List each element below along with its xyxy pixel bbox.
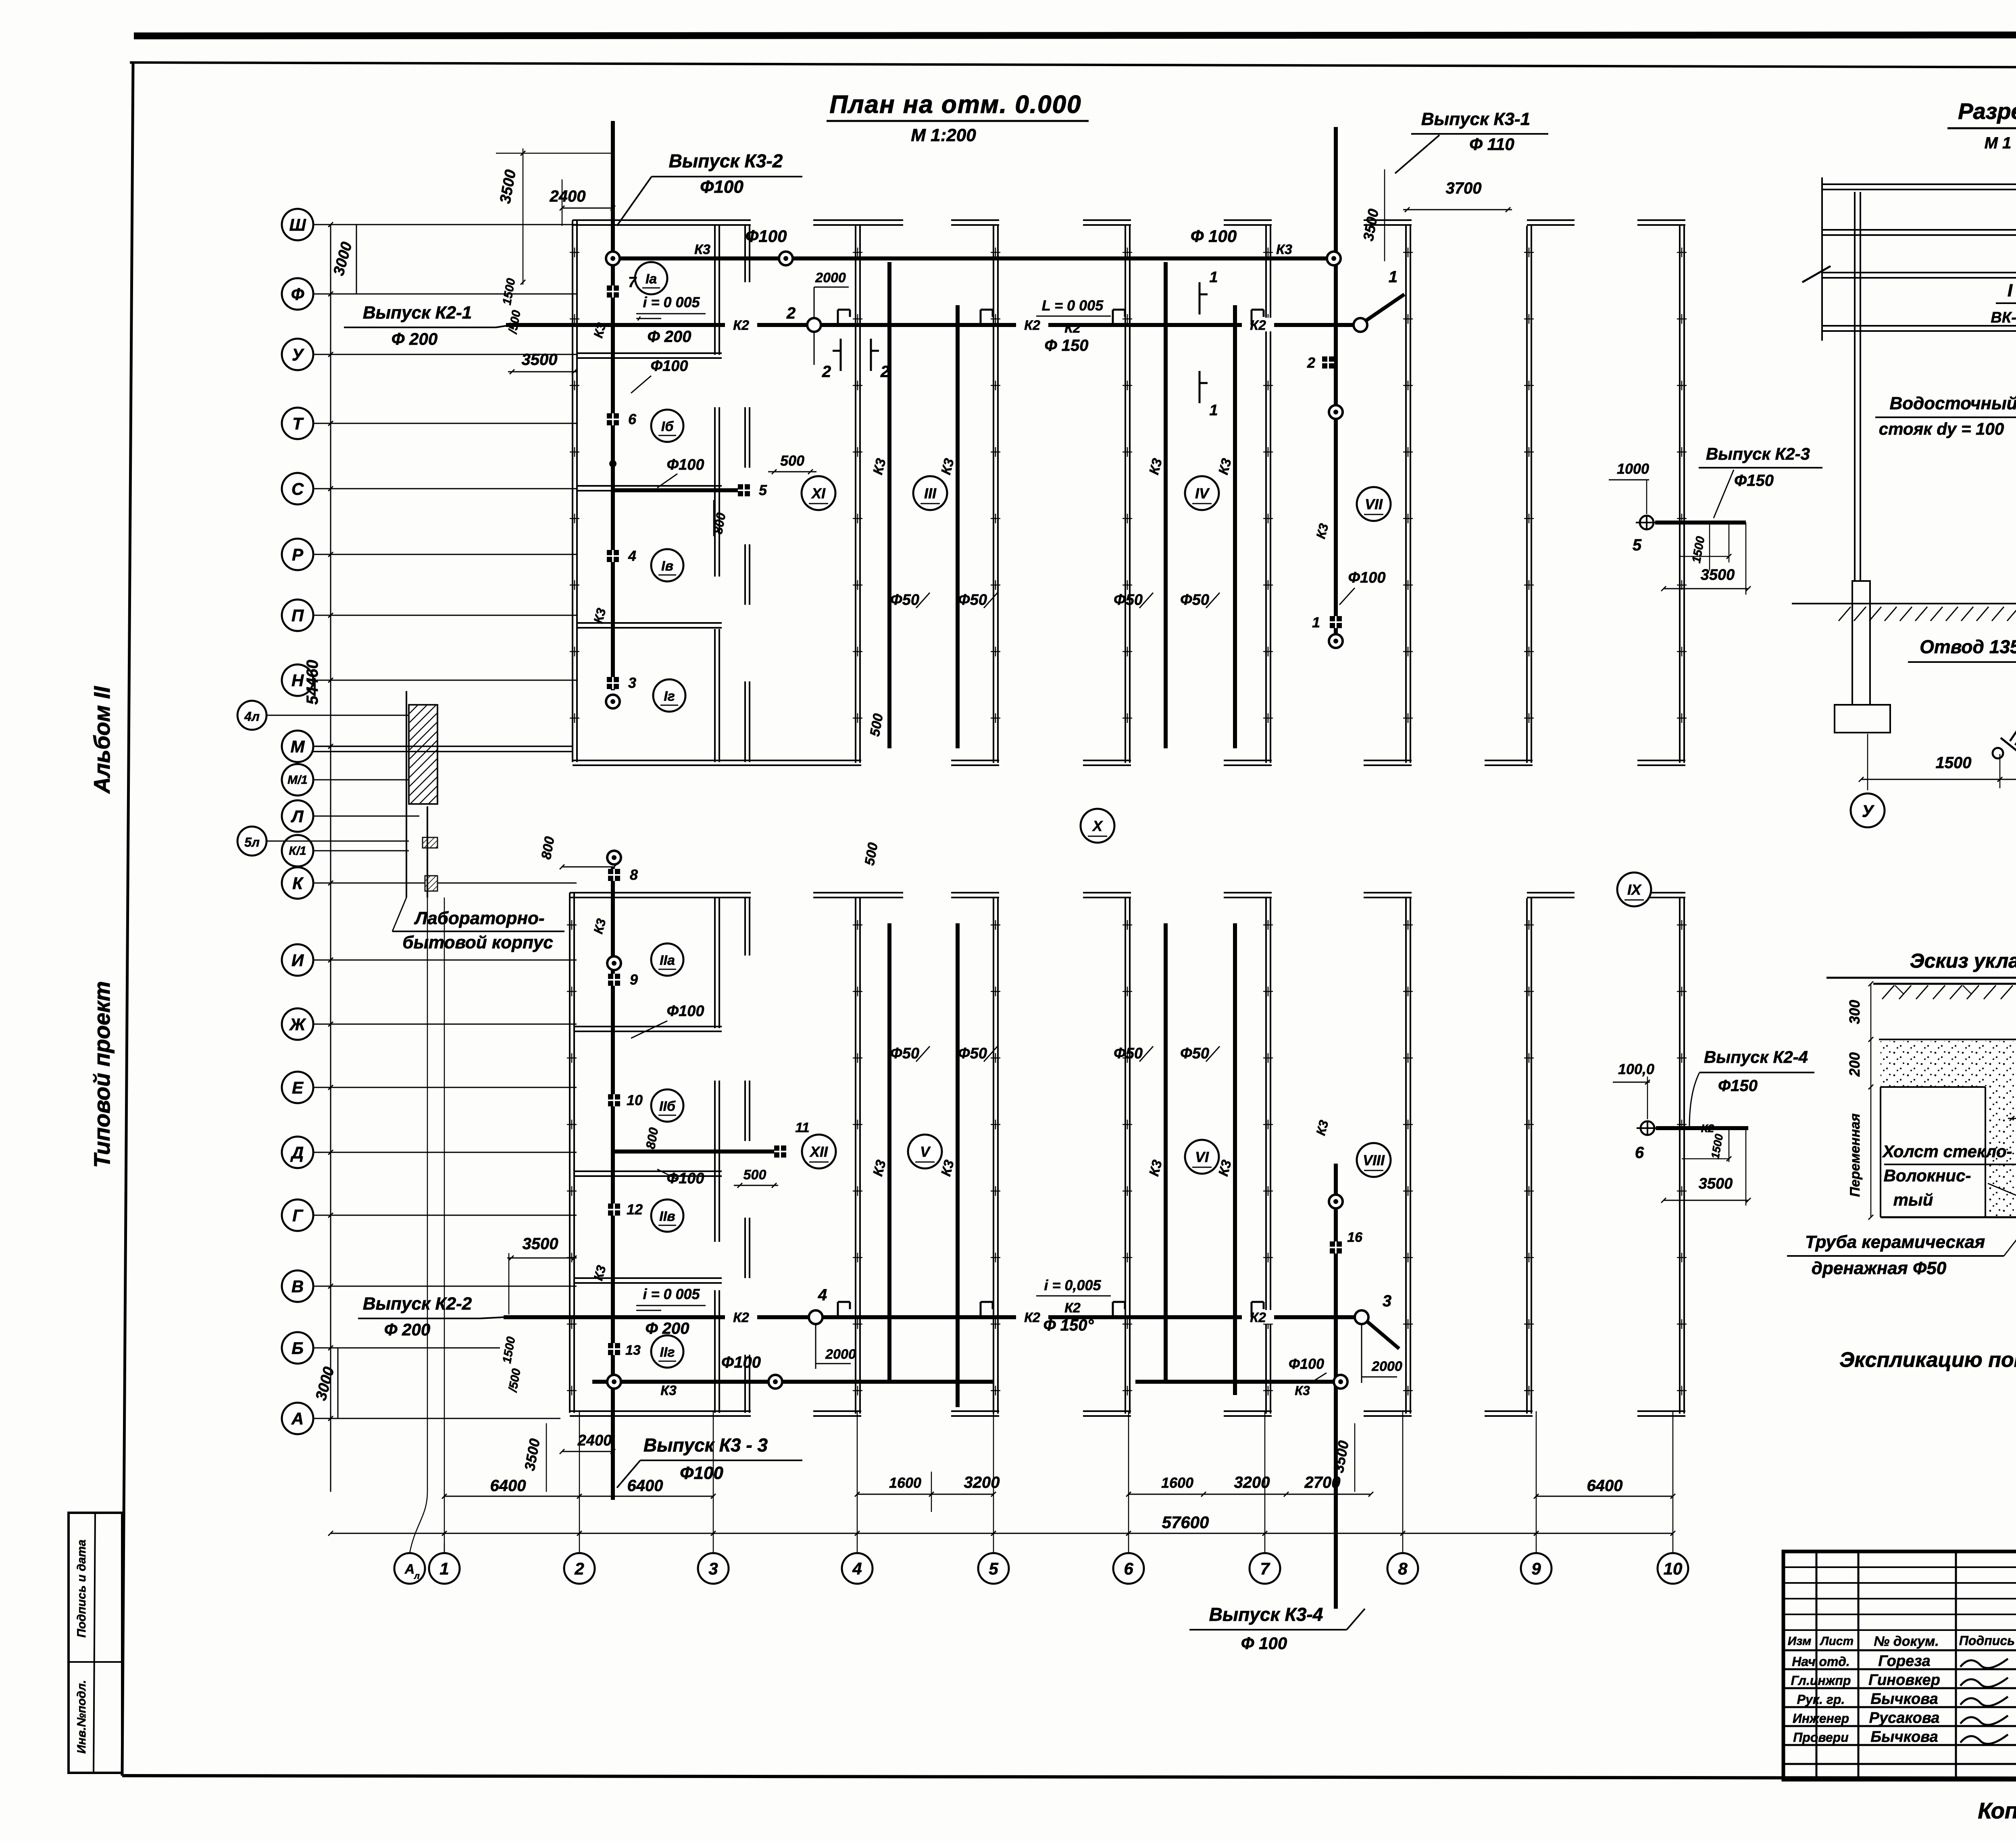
- svg-text:5: 5: [1633, 536, 1642, 554]
- dim 2000 at manhole 2: [814, 333, 815, 365]
- bottom band drain K3 a: [887, 923, 891, 1382]
- axis circle 4Л: [237, 701, 267, 730]
- block II partition horizontals: [574, 1026, 722, 1027]
- dimension 6400 right: [1536, 1496, 1673, 1497]
- room circle Iв: [651, 549, 683, 581]
- svg-text:№ докум.: № докум.: [1874, 1634, 1939, 1649]
- riser K3-1 drain inside: [1334, 220, 1338, 645]
- eskiz trench left: [1987, 1086, 2016, 1216]
- K2 manhole 2: [807, 318, 821, 332]
- riser K3-4 vertical bottom: [1334, 1164, 1338, 1609]
- bottom band drain K3 d: [1233, 923, 1237, 1395]
- svg-text:6400: 6400: [1587, 1477, 1623, 1495]
- dim 2000 at manhole 4: [815, 1325, 816, 1369]
- svg-text:Выпуск К3 - 3: Выпуск К3 - 3: [644, 1435, 768, 1456]
- eskiz ground hatch: [1882, 985, 1894, 999]
- junction dot: [609, 460, 616, 467]
- svg-text:4: 4: [818, 1286, 827, 1304]
- svg-text:Н: Н: [292, 671, 304, 690]
- svg-text:Д: Д: [290, 1143, 304, 1162]
- manhole 9 square: [608, 974, 620, 986]
- eskiz dims left margin: [1870, 984, 1872, 1217]
- svg-text:13: 13: [625, 1343, 641, 1358]
- svg-text:3: 3: [1383, 1292, 1391, 1310]
- column circle 1: [429, 1553, 460, 1584]
- svg-text:1: 1: [1209, 269, 1218, 286]
- bottom band wall at column 8: [1405, 898, 1407, 1414]
- svg-text:Ф 100: Ф 100: [1191, 227, 1237, 246]
- K2 wall bracket jogs top band: [837, 310, 839, 325]
- axis circle М/1: [282, 764, 313, 795]
- svg-text:Ф50: Ф50: [1180, 591, 1209, 608]
- eskiz left box: [1880, 1087, 1881, 1217]
- axis circle А: [282, 1403, 313, 1434]
- column circle 2: [564, 1553, 595, 1584]
- svg-text:Р: Р: [292, 545, 304, 564]
- svg-text:К: К: [292, 874, 304, 893]
- svg-text:8: 8: [1398, 1559, 1408, 1578]
- svg-text:Лист: Лист: [1820, 1635, 1854, 1648]
- section mark 2-2 left: [840, 339, 842, 371]
- K2 wall bracket jogs bottom band: [837, 1302, 839, 1317]
- block II spur pipe with manhole 11: [614, 1149, 778, 1154]
- axis circle С: [282, 473, 313, 504]
- razrez 1-1 break marks: [1802, 266, 1831, 282]
- svg-text:VIII: VIII: [1363, 1152, 1385, 1168]
- axis line К: [313, 883, 577, 884]
- svg-text:К/1: К/1: [289, 844, 306, 858]
- svg-text:3200: 3200: [1234, 1474, 1270, 1491]
- svg-text:М: М: [291, 737, 305, 756]
- axis circle К/1: [282, 835, 313, 866]
- svg-text:2400: 2400: [577, 1432, 612, 1449]
- svg-text:К3: К3: [1276, 242, 1292, 257]
- manhole 9 circle: [607, 956, 621, 970]
- svg-text:Рук. гр.: Рук. гр.: [1797, 1692, 1845, 1707]
- svg-text:Ф150: Ф150: [1734, 472, 1774, 489]
- bottom band wall at column 7: [1265, 898, 1267, 1414]
- svg-text:6: 6: [1124, 1559, 1133, 1578]
- eskiz ground line: [1873, 983, 2016, 985]
- axis circle И: [282, 944, 313, 976]
- manhole 1 square: [1330, 616, 1342, 628]
- K3 main top: [613, 256, 1334, 260]
- svg-text:Подпись: Подпись: [1959, 1633, 2015, 1648]
- razrez 1-1 left column: [1854, 192, 1856, 581]
- K2 manhole 1: [1354, 318, 1367, 332]
- svg-text:Iв: Iв: [661, 558, 673, 574]
- svg-text:У: У: [1862, 802, 1875, 820]
- manhole circle a: [1329, 405, 1343, 419]
- svg-text:IV: IV: [1195, 485, 1210, 502]
- axis circle 5Л: [237, 827, 267, 856]
- top band drain K3 d: [1233, 305, 1237, 748]
- manhole 8 circle: [607, 851, 621, 864]
- svg-text:Ф 200: Ф 200: [392, 329, 438, 348]
- vertical dimension line along axis circles: [330, 225, 331, 1492]
- svg-text:1600: 1600: [1161, 1474, 1193, 1491]
- riser K3-2 vertical (block I): [611, 121, 615, 690]
- bay circle V: [908, 1135, 942, 1168]
- svg-text:i = 0,005: i = 0,005: [1044, 1277, 1101, 1293]
- svg-text:4л: 4л: [244, 709, 260, 724]
- svg-text:Iа: Iа: [646, 271, 657, 287]
- svg-text:План на отм. 0.000: План на отм. 0.000: [829, 91, 1081, 119]
- column circle 9: [1521, 1553, 1552, 1584]
- bottom-left margin table: [69, 1513, 122, 1773]
- svg-text:К3: К3: [660, 1383, 677, 1398]
- svg-text:6: 6: [628, 411, 637, 427]
- svg-text:Ф 110: Ф 110: [1469, 135, 1514, 154]
- axis line И: [313, 960, 577, 961]
- svg-text:Е: Е: [292, 1078, 304, 1097]
- svg-text:3500: 3500: [1699, 1175, 1733, 1192]
- corridor axis M double line: [313, 745, 573, 747]
- axis circle Ф: [282, 278, 313, 310]
- razrez 1-1 roof end rails: [1821, 177, 1823, 341]
- axis circle Д: [282, 1137, 313, 1168]
- svg-text:2400: 2400: [550, 187, 586, 205]
- vypusk K2-1 leader: [496, 325, 511, 327]
- axis line М: [313, 746, 409, 747]
- svg-text:Ф100: Ф100: [666, 1003, 704, 1020]
- razrez 1-1 left footing: [1835, 705, 1890, 733]
- top band drain K3 b: [956, 305, 960, 748]
- svg-text:Ф100: Ф100: [666, 1170, 704, 1187]
- svg-text:1500: 1500: [1936, 754, 1972, 772]
- svg-text:бытовой корпус: бытовой корпус: [402, 933, 553, 952]
- svg-text:стояк dу = 100: стояк dу = 100: [1879, 419, 2004, 438]
- svg-text:В: В: [292, 1277, 304, 1296]
- svg-text:I: I: [2008, 281, 2013, 300]
- svg-text:i = 0 005: i = 0 005: [643, 1286, 700, 1302]
- svg-text:Переменная: Переменная: [1847, 1113, 1863, 1197]
- svg-text:Б: Б: [292, 1339, 304, 1358]
- bay circle VIII: [1357, 1143, 1391, 1177]
- manhole circle b: [1329, 634, 1343, 648]
- svg-text:А: А: [404, 1562, 415, 1577]
- svg-text:12: 12: [627, 1201, 643, 1218]
- svg-text:IIв: IIв: [659, 1209, 675, 1224]
- svg-text:1: 1: [1209, 402, 1218, 419]
- svg-text:500: 500: [780, 452, 804, 469]
- axis line Ж: [313, 1024, 577, 1025]
- manhole 6: [607, 413, 619, 425]
- svg-text:9: 9: [1531, 1559, 1541, 1578]
- manhole 2 square top: [1322, 356, 1334, 369]
- svg-text:L = 0 005: L = 0 005: [1042, 297, 1104, 314]
- svg-text:Провери: Провери: [1793, 1730, 1849, 1745]
- svg-text:Волокнис-: Волокнис-: [1884, 1166, 1971, 1185]
- svg-text:К2: К2: [1701, 1122, 1714, 1135]
- axis circle У: [282, 339, 313, 370]
- axis line Ф: [313, 294, 577, 295]
- svg-text:Г: Г: [292, 1206, 304, 1225]
- K2 main top: [506, 323, 1360, 327]
- block I partition horizontals: [577, 352, 722, 354]
- axis line М/1: [313, 779, 409, 781]
- top band wall at column 10: [1679, 226, 1681, 763]
- svg-text:Труба керамическая: Труба керамическая: [1805, 1232, 1985, 1252]
- sheet top border line: [130, 62, 2016, 69]
- manhole 16 square: [1330, 1241, 1342, 1254]
- svg-text:Ш: Ш: [289, 215, 306, 234]
- svg-text:Выпуск К2-3: Выпуск К2-3: [1706, 444, 1810, 463]
- axis line У: [313, 354, 577, 355]
- razrez 1-1 roof beams: [1822, 183, 2016, 185]
- axis line Б: [313, 1347, 500, 1349]
- axis circle В: [282, 1270, 313, 1302]
- svg-text:Т: Т: [292, 414, 304, 433]
- svg-text:Л: Л: [291, 807, 304, 826]
- svg-text:2: 2: [1307, 354, 1315, 371]
- svg-text:Изм: Изм: [1788, 1635, 1812, 1648]
- section mark 1-1 top: [1199, 282, 1201, 314]
- column circle 3: [698, 1553, 729, 1584]
- axis line В: [313, 1286, 577, 1287]
- svg-text:2: 2: [574, 1559, 584, 1578]
- svg-text:Ф 150: Ф 150: [1044, 337, 1088, 354]
- svg-text:Типовой проект: Типовой проект: [89, 981, 115, 1168]
- svg-text:И: И: [292, 951, 304, 970]
- svg-text:3500: 3500: [1701, 566, 1735, 583]
- svg-text:7: 7: [1260, 1559, 1270, 1578]
- room circle Iг: [653, 679, 685, 712]
- column circle 8: [1387, 1553, 1418, 1584]
- block I outer walls: [572, 220, 573, 762]
- sheet left border: [122, 62, 133, 1776]
- svg-text:Выпуск К2-1: Выпуск К2-1: [363, 303, 472, 323]
- svg-text:XII: XII: [809, 1143, 828, 1160]
- manhole 13: [608, 1343, 620, 1355]
- svg-text:Выпуск К3-4: Выпуск К3-4: [1209, 1604, 1323, 1625]
- axis circle М: [282, 731, 313, 762]
- manhole 8 square: [608, 869, 620, 881]
- room circle IIв: [651, 1199, 683, 1232]
- column circle 7: [1250, 1553, 1280, 1584]
- svg-text:2: 2: [822, 363, 831, 381]
- axis line Г: [313, 1215, 577, 1216]
- bottom band wall at column 5: [993, 898, 994, 1414]
- svg-text:200: 200: [1846, 1052, 1863, 1077]
- axis circle Л: [282, 800, 313, 832]
- svg-text:2000: 2000: [1371, 1359, 1402, 1374]
- svg-text:Ф100: Ф100: [666, 456, 704, 473]
- bay circle III: [913, 476, 947, 510]
- manhole circle c: [1329, 1195, 1343, 1208]
- svg-text:11: 11: [795, 1120, 809, 1135]
- axis circle К: [282, 867, 313, 899]
- axis line Р: [313, 554, 577, 555]
- svg-text:57600: 57600: [1162, 1513, 1209, 1532]
- riser K3-3 vertical (block II): [611, 867, 615, 1500]
- title block outer box: [1783, 1551, 2016, 1780]
- svg-text:3200: 3200: [964, 1474, 1000, 1491]
- truba leader: [2004, 1214, 2016, 1256]
- axis circle Ш: [282, 209, 313, 240]
- dim 3500 rotated top left: [523, 148, 524, 285]
- svg-text:У: У: [292, 345, 305, 364]
- svg-text:6400: 6400: [627, 1477, 663, 1495]
- svg-text:Гиновкер: Гиновкер: [1868, 1672, 1940, 1689]
- svg-text:Ф50: Ф50: [1180, 1045, 1209, 1062]
- axis circle Р: [282, 539, 313, 570]
- svg-text:4: 4: [628, 548, 636, 564]
- svg-text:М 1 : 50: М 1 : 50: [1985, 134, 2016, 152]
- block I right wall stubs: [744, 226, 746, 282]
- svg-text:М 1:200: М 1:200: [911, 125, 976, 145]
- axis circle Г: [282, 1199, 313, 1231]
- top band drain K3 c: [1164, 262, 1168, 748]
- svg-text:К3: К3: [1295, 1383, 1310, 1398]
- svg-text:5л: 5л: [244, 835, 260, 850]
- svg-text:Бычкова: Бычкова: [1870, 1691, 1938, 1708]
- svg-text:VI: VI: [1195, 1149, 1209, 1165]
- svg-text:5: 5: [759, 482, 767, 498]
- svg-text:Экспликацию помещений см.: Экспликацию помещений см. лист ВК- 4: [1839, 1348, 2016, 1372]
- column circle 6: [1113, 1553, 1144, 1584]
- K2 labels bottom: [725, 1310, 757, 1324]
- top band wall at column 7: [1265, 226, 1267, 763]
- svg-text:IIа: IIа: [660, 953, 675, 968]
- svg-text:Гл.инжпр: Гл.инжпр: [1791, 1673, 1851, 1688]
- razrez 1-1 ground hatch: [1839, 607, 1851, 621]
- bottom band wall at column 4: [855, 898, 856, 1414]
- svg-text:Водосточный: Водосточный: [1889, 394, 2016, 413]
- vypusk K2-4 assembly: [1641, 1121, 1654, 1135]
- K2 manhole 1 tail: [1366, 294, 1404, 321]
- dim text 3000 top: [356, 225, 357, 294]
- bay circle IX: [1617, 873, 1651, 906]
- svg-text:Ф 100: Ф 100: [1241, 1634, 1287, 1653]
- svg-text:54460: 54460: [304, 660, 321, 704]
- svg-text:Ф100: Ф100: [650, 358, 688, 375]
- svg-text:100,0: 100,0: [1618, 1061, 1654, 1077]
- svg-text:Выпуск К3-2: Выпуск К3-2: [669, 150, 783, 171]
- svg-text:3: 3: [708, 1559, 718, 1578]
- block II partition vertical: [714, 898, 716, 1028]
- svg-text:Iг: Iг: [664, 689, 675, 704]
- svg-text:XI: XI: [811, 485, 826, 502]
- K3 main bottom a: [592, 1380, 993, 1384]
- svg-text:VII: VII: [1365, 496, 1383, 512]
- dim 3500 rotated bottom left: [546, 1423, 547, 1492]
- section mark 1-1 bottom: [1199, 371, 1201, 403]
- top band wall at column 5: [993, 226, 994, 763]
- block I partition vertical: [714, 226, 716, 355]
- sheet outer top thick line: [134, 35, 2016, 36]
- svg-text:Русакова: Русакова: [1869, 1710, 1940, 1726]
- svg-text:Ф100: Ф100: [700, 177, 744, 197]
- svg-text:А: А: [291, 1409, 304, 1428]
- axis line Д: [313, 1152, 577, 1153]
- bay circle X: [1081, 809, 1114, 843]
- svg-text:Эскиз укладки дренажных тр: Эскиз укладки дренажных труб в грунтовых…: [1910, 950, 2016, 972]
- svg-text:К3: К3: [694, 242, 710, 257]
- svg-text:1: 1: [1389, 268, 1397, 286]
- svg-text:IX: IX: [1627, 881, 1642, 898]
- bay circle XI: [802, 476, 835, 510]
- K3 main top manholes: [606, 252, 620, 265]
- manhole circle below 3: [606, 695, 620, 708]
- bottom band wall at column 10: [1679, 898, 1681, 1414]
- svg-text:3: 3: [628, 675, 636, 691]
- svg-text:Лабораторно-: Лабораторно-: [414, 908, 544, 928]
- svg-text:IIг: IIг: [660, 1345, 675, 1360]
- razrez 1-1 left pier: [1852, 581, 1870, 705]
- K2 manhole 3 tail: [1367, 1321, 1399, 1349]
- svg-text:3500: 3500: [523, 1235, 558, 1253]
- manhole circle K3 line bl: [607, 1375, 621, 1389]
- svg-text:К2: К2: [1024, 318, 1040, 333]
- svg-text:дренажная Ф50: дренажная Ф50: [1812, 1258, 1947, 1278]
- svg-text:Ф 150°: Ф 150°: [1043, 1316, 1094, 1334]
- block I spur pipe with manhole 5: [613, 488, 744, 492]
- svg-text:16: 16: [1347, 1230, 1363, 1245]
- svg-text:Выпуск К2-4: Выпуск К2-4: [1704, 1047, 1808, 1066]
- svg-text:8: 8: [630, 866, 638, 883]
- column circle 5: [978, 1553, 1009, 1584]
- svg-text:Бычкова: Бычкова: [1870, 1728, 1938, 1745]
- svg-text:М/1: М/1: [287, 773, 308, 787]
- axis circle Е: [282, 1072, 313, 1103]
- svg-text:л: л: [414, 1571, 420, 1581]
- manhole 12: [608, 1204, 620, 1216]
- bottom band drain K3 c: [1164, 923, 1168, 1382]
- svg-text:i = 0 005: i = 0 005: [643, 294, 700, 310]
- lab leader: [392, 898, 406, 931]
- axis line П: [313, 615, 577, 616]
- svg-text:1600: 1600: [889, 1474, 921, 1491]
- block II outer walls: [569, 893, 571, 1413]
- svg-text:Ф50: Ф50: [958, 591, 987, 608]
- title block left columns: [1816, 1551, 1818, 1780]
- top band wall at column 4: [855, 226, 856, 763]
- svg-text:2000: 2000: [815, 270, 846, 285]
- K2 manhole 3: [1355, 1310, 1368, 1324]
- vypusk K3-2 leader: [617, 177, 652, 226]
- block II right wall stubs: [744, 898, 746, 956]
- svg-text:1000: 1000: [1617, 460, 1649, 477]
- top band wall at column 8: [1405, 226, 1407, 763]
- vypusk K2-3 assembly: [1640, 516, 1654, 529]
- svg-text:К2: К2: [1024, 1310, 1040, 1325]
- axis line Ш: [313, 224, 577, 225]
- svg-text:Гореза: Гореза: [1878, 1653, 1931, 1670]
- svg-text:X: X: [1092, 818, 1103, 834]
- dim 3500 rotated K3-1: [1384, 169, 1385, 261]
- svg-text:2000: 2000: [825, 1347, 856, 1362]
- manhole 10: [608, 1094, 620, 1106]
- room circle IIа: [651, 943, 683, 976]
- svg-text:Ф50: Ф50: [1114, 1045, 1143, 1062]
- svg-text:С: С: [292, 479, 304, 498]
- lab building small hatch 1: [423, 837, 437, 848]
- kholst leader: [1988, 1183, 2016, 1199]
- column stub lines: [444, 1543, 445, 1553]
- dimension line 6400 row: [444, 1496, 713, 1497]
- column circle 4: [842, 1553, 873, 1584]
- bay circle XII: [802, 1135, 836, 1168]
- axis line К/1: [313, 850, 409, 852]
- downpipe elbow: [2010, 664, 2016, 741]
- svg-text:2700: 2700: [1304, 1474, 1341, 1491]
- manhole 7: [607, 285, 619, 298]
- svg-text:Ф50: Ф50: [890, 1045, 919, 1062]
- manhole 3: [607, 677, 619, 689]
- razrez 1-1 ground line: [1792, 603, 2016, 604]
- svg-text:2: 2: [786, 304, 796, 322]
